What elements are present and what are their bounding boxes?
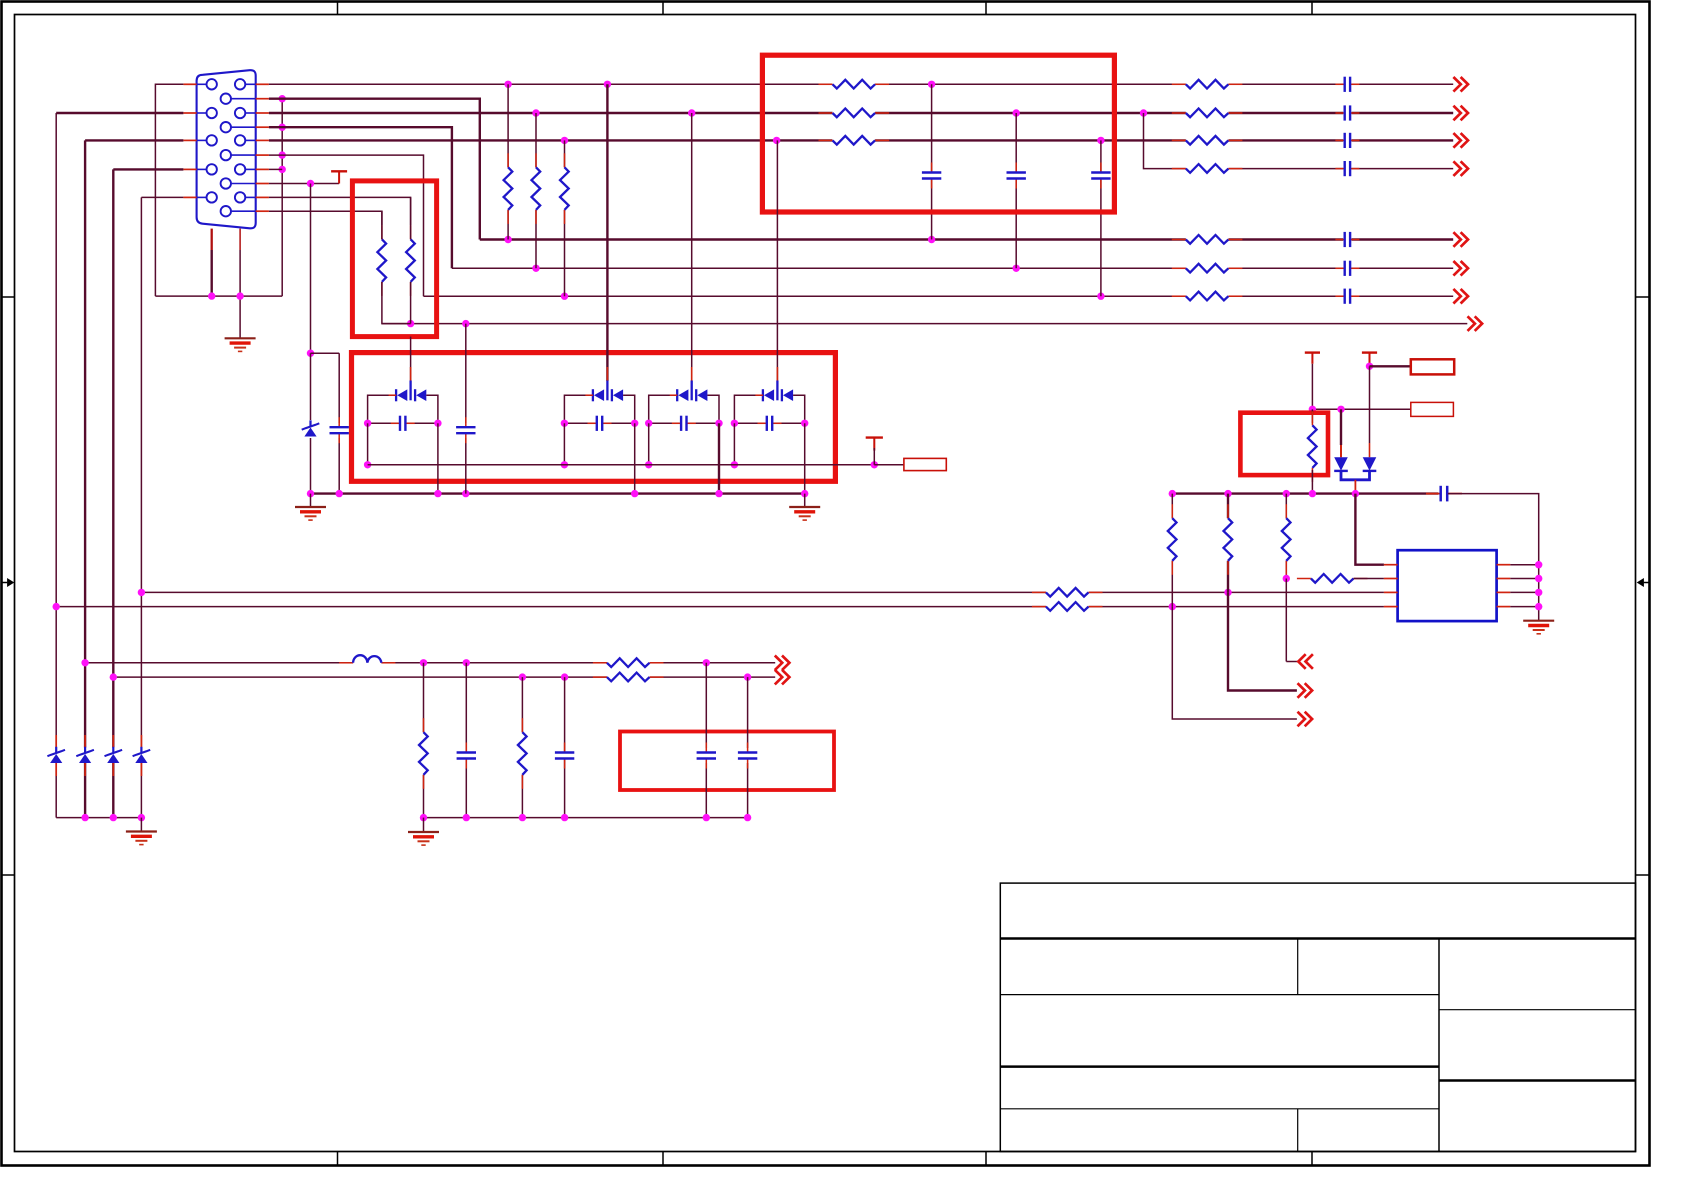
junction ic right 1 [1535,561,1542,568]
resistor row3 filter [833,134,876,146]
junction bus cell4 [801,490,808,497]
junction line B start [53,603,60,610]
cell D3 left wire [649,395,678,423]
wire row5 [480,238,1453,240]
wire shell right down [239,250,241,296]
wire cell D1 left drop [367,423,369,465]
diode pair D4 right bar [781,389,783,401]
diode pair D1 left bar [395,389,397,401]
connector J1 pin circle mid col 5 [221,206,231,216]
stub diode d6 [1340,445,1342,457]
junction tvs bus 3 [110,814,117,821]
cell D1 cap row wire [368,422,438,424]
capacitor col1016 [1006,171,1027,179]
wire cell D2 left drop [563,423,565,465]
wire diode d6 drop [1340,409,1342,445]
tvs diode 3 stub bot [112,763,114,776]
resistor box2 right [405,239,417,282]
connector J1 pin lead mid 2 [231,126,256,128]
diode pair D4 feeder stub [776,367,778,381]
junction line C a [420,659,427,666]
title block right cell line 1 [1439,1009,1636,1011]
cell D4 cap row wire [734,422,804,424]
resistor out row5 [1186,234,1229,246]
junction shunt bus 5 [703,814,710,821]
connector J1 pin circle right col 2 [235,108,245,118]
capacitor cell D2 [595,415,603,431]
junction shell right [236,292,243,299]
connector J1 pin lead left 3 [197,139,207,141]
diode pair D4 centre post [776,381,778,401]
junction cell D3 cap right [715,420,722,427]
wire gnd stub right [804,494,806,507]
capacitor C339 [333,423,346,438]
port chevron line D [775,670,782,685]
wire shunt 706 [705,663,707,818]
connector J1 pin stub left 2 [183,112,196,114]
net label box3 [904,458,946,470]
title block outline [1000,883,1635,1151]
wire capcol 931 [931,84,933,239]
wire shell left down [210,250,212,296]
tvs diode 3 stub top [112,735,114,747]
junction shunt bus 1 [420,814,427,821]
wire T2 to label [1370,365,1411,367]
connector J1 pin circle right col 5 [235,192,245,202]
connector J1 pin circle mid col 1 [221,94,231,104]
junction row1 a [504,81,511,88]
junction cell D1 inner [364,461,371,468]
wire col564 [564,140,566,296]
port chevron row6 [1453,261,1460,276]
junction bus cell1 [434,490,441,497]
connector J1 pin circle left col 3 [207,135,217,145]
connector J1 pin lead mid 4 [231,183,256,185]
wire chevron in [1286,661,1298,663]
wire net56 vertical [55,113,57,818]
ground ic [1523,620,1554,622]
wire row2 [269,112,1453,114]
diode pair D3 left bar [676,389,678,401]
connector J1 pin circle mid col 4 [221,178,231,188]
wire pin5 left horiz [141,196,183,198]
junction ic right 3 [1535,589,1542,596]
resistor row1 filter [833,78,876,90]
capacitor out row3 [1343,132,1351,148]
power T r8 [331,170,347,172]
connector J1 pin stub mid 3 [256,154,269,156]
junction cell D4 cap right [801,420,808,427]
junction zener top [307,350,314,357]
wire net113 vertical [112,169,114,817]
wire row7 feeder [269,155,424,296]
junction bus r1 [1169,490,1176,497]
junction shell left [208,292,215,299]
junction bus r2 [1224,490,1231,497]
port chevron row5 [1453,232,1460,247]
ic U1 pin stub left 4 [1384,606,1398,608]
wire shunt 522 [521,677,523,818]
diode pair D1 left triangle [397,389,407,401]
connector J1 pin circle right col 4 [235,164,245,174]
connector J1 pin stub right 4 [256,168,269,170]
wire line A [141,591,1384,593]
junction bus diode [1352,490,1359,497]
capacitor out row5 [1343,232,1351,248]
wire shunt 423 [423,663,425,818]
connector J1 pin lead right 4 [245,168,255,170]
junction row8 a [407,320,414,327]
wire line D [113,676,775,678]
junction row2 d [1140,109,1147,116]
ground diode box right [789,506,820,508]
wire 1172 cont [1172,607,1297,719]
right edge centre arrow [1644,582,1650,584]
port chevron row8 [1468,316,1475,331]
junction line C start [81,659,88,666]
resistor box2 left [376,239,388,282]
resistor col536 [530,167,542,210]
wire box2 left bot [382,282,411,324]
ic U1 pin stub left 1 [1384,564,1398,566]
junction inner port [871,461,878,468]
cell D4 left stub red [755,394,763,396]
junction cell D3 inner [645,461,652,468]
wire r9 to box2 [269,197,411,225]
connector J1 shell stub right [239,229,241,250]
connector J1 body [197,70,256,228]
wire row6 [452,267,1453,269]
connector J1 pin circle right col 1 [235,79,245,89]
resistor row2 filter [833,107,876,119]
diode pair D3 right bar [695,389,697,401]
junction row1 c [928,81,935,88]
stub diode centre [1354,480,1356,494]
diode D7 [1363,457,1377,470]
wire col536 [535,113,537,268]
wire row1 [269,83,1453,85]
wire cell3 feeder [691,113,693,381]
wire box2 left top [381,211,383,239]
title block column divider a [1297,939,1299,995]
wire line B [56,606,1384,608]
net label right 2 [1411,402,1454,416]
cell D3 left stub red [670,394,678,396]
junction shunt bus 3 [519,814,526,821]
left edge centre arrow [2,582,8,584]
wire box5 res top [1311,409,1313,423]
diode pair D4 right triangle [783,389,793,401]
connector J1 pin stub mid 2 [256,126,269,128]
wire diode gnd bus [311,492,805,494]
junction cell D1 cap left [364,420,371,427]
junction line D start [110,673,117,680]
diode pair D3 left triangle [678,389,688,401]
wire T1 down [1311,364,1313,410]
connector J1 pin stub mid 4 [256,183,269,185]
ic U1 body [1398,550,1497,621]
wire shunt gnd stub [423,818,425,832]
connector J1 pin circle left col 4 [207,164,217,174]
connector J1 pin stub left 1 [183,83,196,85]
diode pair D4 left bar [762,389,764,401]
resistor line A [1046,586,1089,598]
junction line D b [561,673,568,680]
wire cell1 feeder [410,337,412,381]
tvs diode 2 [77,748,93,764]
connector J1 pin stub left 5 [183,196,196,198]
ic U1 right pin wire 4 [1510,606,1538,608]
junction T2 [1366,363,1373,370]
resistor line B [1046,601,1089,613]
wire box2 right bot [410,282,412,324]
top edge zone tick 4 [1311,2,1313,15]
diode pair D2 centre post [606,381,608,401]
ic U1 right pin wire 3 [1510,591,1538,593]
connector J1 pin stub right 1 [256,83,269,85]
junction row3 a [561,137,568,144]
left edge zone tick 2 [2,874,15,876]
diode pair D1 centre post [409,381,411,401]
capacitor shunt 564 [554,751,575,759]
port chevron line C [775,656,782,671]
junction cell D2 cap right [631,420,638,427]
title block row line thick 1 [1000,937,1635,940]
connector J1 pin lead right 5 [245,196,255,198]
junction pull 1286 [1283,575,1290,582]
capacitor out row2 [1343,105,1351,121]
tvs diode 2 stub top [84,735,86,747]
wire T to inner [873,448,875,465]
wire pin2 left horiz [56,112,183,114]
highlight box B2 [352,181,436,337]
junction label2 b [1337,406,1344,413]
port chevron out bot [1298,712,1305,727]
junction bus r3 [1283,490,1290,497]
cell D1 left wire [368,395,397,423]
ground shunt bus [408,831,439,833]
connector J1 pin lead mid 1 [231,98,256,100]
left edge zone tick 1 [2,296,15,298]
connector J1 pin stub left 4 [183,168,196,170]
highlight box B3 [352,353,836,482]
port chevron in left [1298,654,1305,669]
wire box2 right top [410,197,412,239]
connector J1 pin circle right col 3 [235,135,245,145]
connector J1 pin lead right 2 [245,112,255,114]
tvs diode 1 stub bot [55,763,57,776]
junction row2 a [532,109,539,116]
connector J1 pin circle left col 5 [207,192,217,202]
bottom edge zone tick 2 [662,1152,664,1166]
cell D3 cap row wire [649,422,719,424]
junction tvs bus 4 [138,814,145,821]
wire r8 net down [310,184,312,354]
junction line D a [519,673,526,680]
capacitor supply [1440,486,1449,502]
wire shunt 564 [564,677,566,818]
diode pair D1 right triangle [416,389,426,401]
tvs diode 4 stub top [140,735,142,747]
ground diode box left [295,506,326,508]
junction bus zener [307,490,314,497]
junction line C b [463,659,470,666]
junction row5 a [504,236,511,243]
junction row2 b [688,109,695,116]
connector J1 pin circle left col 2 [207,108,217,118]
junction cell D4 cap left [731,420,738,427]
ground tvs bus [126,830,157,832]
capacitor cell D4 [765,415,773,431]
cell D3 right wire [707,395,719,423]
wire pull 1172 [1171,494,1173,607]
diode pair D2 left bar [592,389,594,401]
highlight box B5 [1240,413,1328,475]
resistor col564 [559,167,571,210]
junction shunt bus 2 [463,814,470,821]
junction row6 b [1013,265,1020,272]
bottom edge zone tick 3 [985,1152,987,1166]
capacitor C465 [460,423,473,438]
wire label2 row [1312,408,1410,410]
wire supply bus right [1448,494,1539,621]
wire T2 down [1369,364,1371,367]
wire capcol 1016 [1015,113,1017,268]
junction cell D2 inner [561,461,568,468]
diode pair D1 right bar [414,389,416,401]
junction row1 b [604,81,611,88]
ground shield [225,337,256,339]
junction line D c [744,673,751,680]
resistor line D [607,671,650,683]
diode pair D2 left triangle [594,389,604,401]
wire inner to label [874,464,904,466]
diode pair D2 feeder stub [606,367,608,381]
connector J1 pin lead left 5 [197,196,207,198]
capacitor out row1 [1343,76,1351,92]
wire cell D2 right drop [634,423,636,493]
resistor series ic pin2 [1311,573,1354,585]
wire box5 res bot [1311,470,1313,494]
wire 1286 cont [1285,579,1287,662]
junction row3 c [1097,137,1104,144]
connector J1 pin lead left 4 [197,168,207,170]
junction shunt bus 4 [561,814,568,821]
wire cell4 feeder [776,140,778,381]
ic U1 pin stub right 4 [1497,606,1511,608]
right edge zone tick 1 [1636,296,1650,298]
junction cell D4 inner [731,461,738,468]
resistor col508 [502,167,514,210]
right edge zone tick 2 [1636,874,1650,876]
capacitor out row7 [1343,288,1351,304]
port chevron row7 [1453,289,1460,304]
capacitor cell D1 [399,415,407,431]
junction shunt bus 6 [744,814,751,821]
port chevron row2 [1453,106,1460,121]
diode pair D3 centre post [691,381,693,401]
junction bus box5 [1309,490,1316,497]
resistor pull 1228 [1222,518,1234,561]
connector J1 pin circle left col 1 [207,79,217,89]
stub diode d7 [1369,443,1371,457]
connector J1 pin stub right 3 [256,139,269,141]
title block row line 4 [1000,1108,1439,1110]
connector J1 pin circle mid col 3 [221,150,231,160]
zener D5 [305,420,317,438]
tvs diode 4 stub bot [140,763,142,776]
wire line C [85,662,775,664]
cell D2 cap row wire [564,422,634,424]
wire r10 to box2 [269,211,382,225]
wire supply bus [1172,492,1438,494]
net label right 1 [1411,359,1454,374]
junction bus cell3 [715,490,722,497]
junction ic right 2 [1535,575,1542,582]
junction row7 a [561,293,568,300]
diode D6 [1334,457,1348,470]
wire net85 vertical [84,140,86,817]
wire row r8 [269,183,339,185]
wire pin r7 stub [269,168,282,170]
bottom edge zone tick 4 [1311,1152,1313,1166]
port chevron row1 [1453,77,1460,92]
junction line B x1172 [1169,603,1176,610]
wire col508 [507,84,509,239]
cell D4 left wire [734,395,763,423]
junction cell D1 cap right [434,420,441,427]
junction x282 r2 [279,95,286,102]
junction row6 a [532,265,539,272]
resistor out row7 [1186,290,1229,302]
wire pin3 left horiz [85,139,183,141]
wire cell D1 right drop [437,423,439,493]
wire pin1 left [155,84,183,296]
wire cell D4 right drop [804,423,806,493]
wire shunt 466 [465,663,467,818]
junction label2 a [1309,406,1316,413]
connector J1 pin stub right 2 [256,112,269,114]
junction line A start [138,589,145,596]
connector J1 pin lead mid 3 [231,154,256,156]
junction x282 r7 [279,166,286,173]
diode pair D4 left triangle [764,389,774,401]
junction bus cap339 [336,490,343,497]
connector J1 pin stub right 5 [256,196,269,198]
capacitor shunt 706 [700,748,713,763]
wire row8 [382,323,1467,325]
wire shunt 747 [747,677,749,818]
wire zener link [311,352,340,354]
title block column divider b [1297,1109,1299,1152]
wire tvs bus [56,817,141,819]
cell D1 right wire [426,395,438,423]
ic U1 pin stub right 3 [1497,591,1511,593]
resistor shunt 522 [516,732,528,775]
port chevron row4 [1453,161,1460,176]
cell D1 left stub red [389,394,397,396]
wire diode box inner line [368,464,875,466]
wire row3 [269,139,1453,141]
resistor box5 [1306,425,1318,468]
wire zener col [310,353,312,493]
port chevron row3 [1453,133,1460,148]
wire pin tie vertical x282 [281,99,283,296]
wire diode d7 drop [1369,366,1371,443]
power T right 2 [1362,351,1377,353]
ic U1 pin stub right 2 [1497,578,1511,580]
title block main column divider [1438,939,1440,1152]
